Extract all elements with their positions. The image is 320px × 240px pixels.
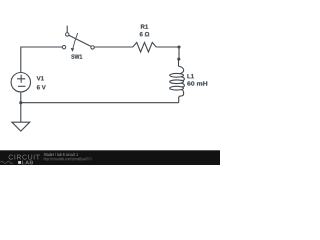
switch SW1 top terminal bbox=[66, 33, 69, 36]
junction dot at bottom node bbox=[19, 101, 22, 104]
voltage source V1 bbox=[11, 73, 30, 92]
switch SW1 lever bbox=[69, 35, 91, 46]
wire: V1 bottom lead through junction to ground bbox=[20, 92, 22, 122]
label 60 mH bbox=[187, 81, 207, 85]
junction dot at inductor top terminal bbox=[177, 58, 180, 61]
CircuitLab logo wave bbox=[0, 161, 13, 164]
CircuitLab logo square bbox=[18, 161, 21, 164]
inductor L1 coil turn 2 bbox=[170, 80, 184, 84]
wire: bottom return from inductor L1 to junction bbox=[21, 102, 179, 104]
label V1 bbox=[37, 76, 44, 80]
watermark url text bbox=[44, 157, 92, 161]
ground bbox=[12, 122, 30, 131]
watermark title text bbox=[44, 153, 78, 156]
switch SW1 right terminal bbox=[91, 46, 94, 49]
junction dot at top-right corner bbox=[177, 45, 180, 48]
inductor L1 lead-in and crossover strands bbox=[179, 59, 185, 103]
label L1 bbox=[187, 74, 194, 78]
watermark bar bbox=[0, 150, 220, 165]
wire: switch right terminal to resistor R1 bbox=[94, 46, 133, 48]
wire: V1 top lead up and right to switch left terminal bbox=[21, 47, 63, 73]
switch SW1 left terminal bbox=[62, 46, 65, 49]
resistor R1 bbox=[133, 42, 156, 52]
inductor L1 coil turn 3 bbox=[170, 86, 184, 90]
CircuitLab logo text CIRCUIT bbox=[9, 155, 40, 160]
label 6 ohm bbox=[140, 32, 150, 36]
CircuitLab logo text LAB bbox=[22, 161, 33, 165]
switch SW1 arrowhead bbox=[71, 48, 75, 52]
inductor L1 coil turn 1 bbox=[170, 73, 184, 77]
label SW1 bbox=[71, 54, 82, 58]
V1 minus sign bbox=[18, 85, 25, 87]
wire: resistor R1 to top-right corner down to inductor terminal bbox=[156, 47, 179, 59]
label R1 bbox=[141, 25, 148, 29]
switch SW1 top throw stub bbox=[66, 26, 68, 33]
V1 plus sign bbox=[17, 75, 25, 83]
switch SW1 action arrow bbox=[73, 33, 78, 48]
label 6 V bbox=[37, 85, 46, 89]
